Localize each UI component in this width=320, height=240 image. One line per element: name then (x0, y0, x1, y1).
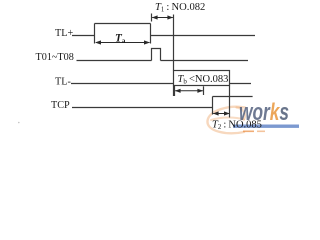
svg-text:T1 : NO.082: T1 : NO.082 (155, 2, 205, 14)
svg-text:T2 : NO.085: T2 : NO.085 (212, 119, 262, 131)
svg-text:TCP: TCP (51, 100, 70, 111)
svg-text:TL+: TL+ (55, 28, 73, 39)
svg-text:TL-: TL- (55, 76, 71, 87)
svg-text:T01~T08: T01~T08 (36, 52, 74, 63)
svg-text:Ta: Ta (115, 32, 126, 45)
